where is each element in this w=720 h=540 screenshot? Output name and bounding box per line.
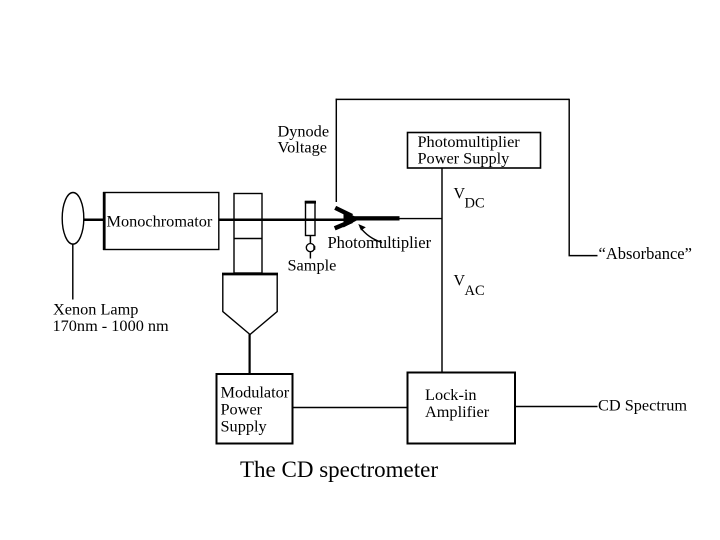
wire: sample label leader: [309, 251, 311, 258]
svg-text:Voltage: Voltage: [278, 138, 327, 157]
annotation arrow to PMT: [358, 224, 382, 243]
svg-text:DC: DC: [465, 196, 485, 212]
wire: top feedback run: [336, 98, 570, 100]
wire: lamp label leader: [72, 244, 74, 299]
wire: light beam from lamp to photomultiplier: [84, 219, 346, 222]
box U2 Photomultiplier Power Supply: [408, 132, 541, 168]
svg-text:Supply: Supply: [221, 417, 268, 436]
svg-text:The CD spectrometer: The CD spectrometer: [240, 457, 438, 482]
wire: sample stem: [309, 236, 311, 247]
svg-text:Amplifier: Amplifier: [425, 402, 490, 421]
label: V DC: [454, 186, 485, 212]
wire: PMT output to Vdc line: [399, 218, 442, 220]
svg-text:CD Spectrum: CD Spectrum: [598, 396, 687, 415]
svg-text:AC: AC: [465, 283, 485, 299]
modulator crystal (photoelastic modulator): [234, 194, 262, 274]
wire: main vertical (PPS to lock-in): [441, 168, 443, 372]
wire: lock-in output: [516, 406, 598, 408]
wire: dynode voltage vertical: [335, 99, 337, 202]
funnel housing below modulator: [222, 274, 278, 335]
wire: funnel to modulator power supply: [249, 334, 251, 374]
wire: absorbance stub: [569, 255, 598, 257]
box U4 Lock-in Amplifier: [408, 373, 516, 444]
sample cuvette: [305, 202, 316, 236]
wire: absorbance drop: [568, 99, 570, 256]
wire: modulator PS to lock-in: [293, 407, 408, 409]
svg-text:Monochromator: Monochromator: [107, 212, 213, 231]
label: V AC: [454, 273, 485, 300]
node: sample stopcock circle: [306, 244, 314, 252]
svg-text:“Absorbance”: “Absorbance”: [599, 244, 692, 263]
box U1 Monochromator: [104, 192, 219, 250]
svg-text:Photomultiplier: Photomultiplier: [328, 233, 432, 252]
svg-text:Power Supply: Power Supply: [418, 149, 511, 168]
svg-text:170nm - 1000 nm: 170nm - 1000 nm: [53, 316, 170, 335]
lamp L1 (xenon lamp ellipse): [62, 193, 84, 245]
svg-text:Sample: Sample: [288, 256, 337, 275]
box U3 Modulator Power Supply: [217, 374, 293, 444]
photomultiplier PMT symbol (black arrow): [335, 208, 400, 229]
